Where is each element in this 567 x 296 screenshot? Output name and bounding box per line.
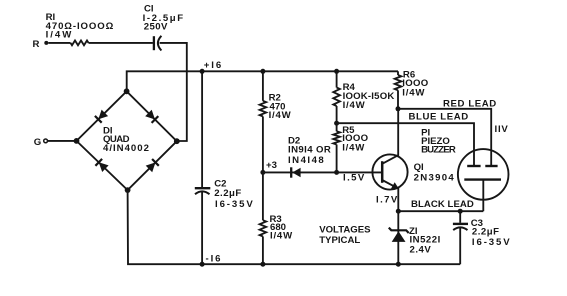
- wire +16 rail: [127, 71, 398, 91]
- junction emitter/Z1: [396, 209, 401, 214]
- svg-text:RED LEAD: RED LEAD: [443, 99, 497, 110]
- junction C2 top: [200, 69, 205, 74]
- svg-text:I.7V: I.7V: [376, 195, 399, 206]
- svg-text:IN4I48: IN4I48: [288, 155, 325, 166]
- svg-text:TYPICAL: TYPICAL: [319, 235, 360, 246]
- diode D2: [290, 167, 292, 177]
- svg-text:QI: QI: [414, 162, 424, 173]
- node +3: [260, 170, 265, 175]
- wire -16 rail: [128, 190, 461, 264]
- piezo buzzer P1: [458, 149, 509, 200]
- svg-text:I/4W: I/4W: [342, 142, 365, 153]
- wire blue lead: [337, 123, 474, 165]
- svg-text:I/4W: I/4W: [343, 100, 366, 111]
- svg-text:BLUE LEAD: BLUE LEAD: [409, 111, 469, 122]
- junction R4/R5 blue: [334, 121, 339, 126]
- svg-text:I/4W: I/4W: [270, 230, 293, 241]
- svg-text:I/4W: I/4W: [269, 110, 292, 121]
- svg-text:I6-35V: I6-35V: [472, 237, 512, 248]
- svg-text:2.2μF: 2.2μF: [472, 227, 500, 238]
- bridge diode top-left: [98, 110, 108, 120]
- svg-text:-I6: -I6: [206, 253, 223, 264]
- capacitor C1: [153, 36, 155, 50]
- junction C2 bottom: [200, 262, 205, 267]
- svg-text:4/IN4002: 4/IN4002: [103, 143, 150, 154]
- capacitor C2 branch: [201, 71, 203, 187]
- resistor R3: [262, 172, 264, 220]
- resistor R2: [262, 71, 264, 101]
- svg-text:+3: +3: [266, 160, 277, 171]
- svg-text:250V: 250V: [144, 22, 168, 33]
- wire C1 to bridge AC input: [160, 43, 187, 141]
- junction R6/collector/red: [396, 106, 401, 111]
- wire black lead: [398, 210, 483, 212]
- transistor Q1: [372, 154, 407, 189]
- svg-text:I/4W: I/4W: [402, 87, 425, 98]
- svg-text:BLACK LEAD: BLACK LEAD: [411, 199, 474, 210]
- svg-text:I/4W: I/4W: [46, 29, 74, 40]
- svg-text:2N3904: 2N3904: [414, 173, 455, 184]
- resistor R6: [397, 71, 399, 75]
- svg-text:BUZZER: BUZZER: [421, 145, 456, 156]
- wire R1 to C1: [89, 42, 153, 44]
- wire +3 node to Q1 base: [263, 171, 382, 173]
- bridge diode top-right: [145, 110, 155, 120]
- bridge diode bottom-right: [146, 162, 156, 172]
- svg-text:2.4V: 2.4V: [410, 244, 432, 255]
- svg-text:I6-35V: I6-35V: [215, 199, 255, 210]
- svg-text:R: R: [33, 39, 40, 50]
- svg-text:IIV: IIV: [495, 124, 509, 135]
- resistor R5: [336, 123, 338, 131]
- svg-text:2.2μF: 2.2μF: [214, 188, 242, 199]
- junction C3 top: [458, 209, 463, 214]
- wire G to bridge: [48, 140, 77, 142]
- svg-text:+I6: +I6: [204, 60, 223, 71]
- bridge diode bottom-left: [99, 162, 109, 172]
- capacitor C3: [459, 211, 461, 223]
- bridge rectifier D1 wires: [77, 91, 177, 190]
- svg-text:VOLTAGES: VOLTAGES: [319, 224, 371, 235]
- svg-text:I.5V: I.5V: [343, 172, 366, 183]
- zener Z1: [397, 211, 399, 264]
- bridge vertex junctions: [124, 88, 130, 94]
- resistor R1: [48, 42, 70, 44]
- svg-text:G: G: [34, 137, 41, 148]
- wire red lead: [398, 109, 491, 166]
- resistor R4: [336, 71, 338, 87]
